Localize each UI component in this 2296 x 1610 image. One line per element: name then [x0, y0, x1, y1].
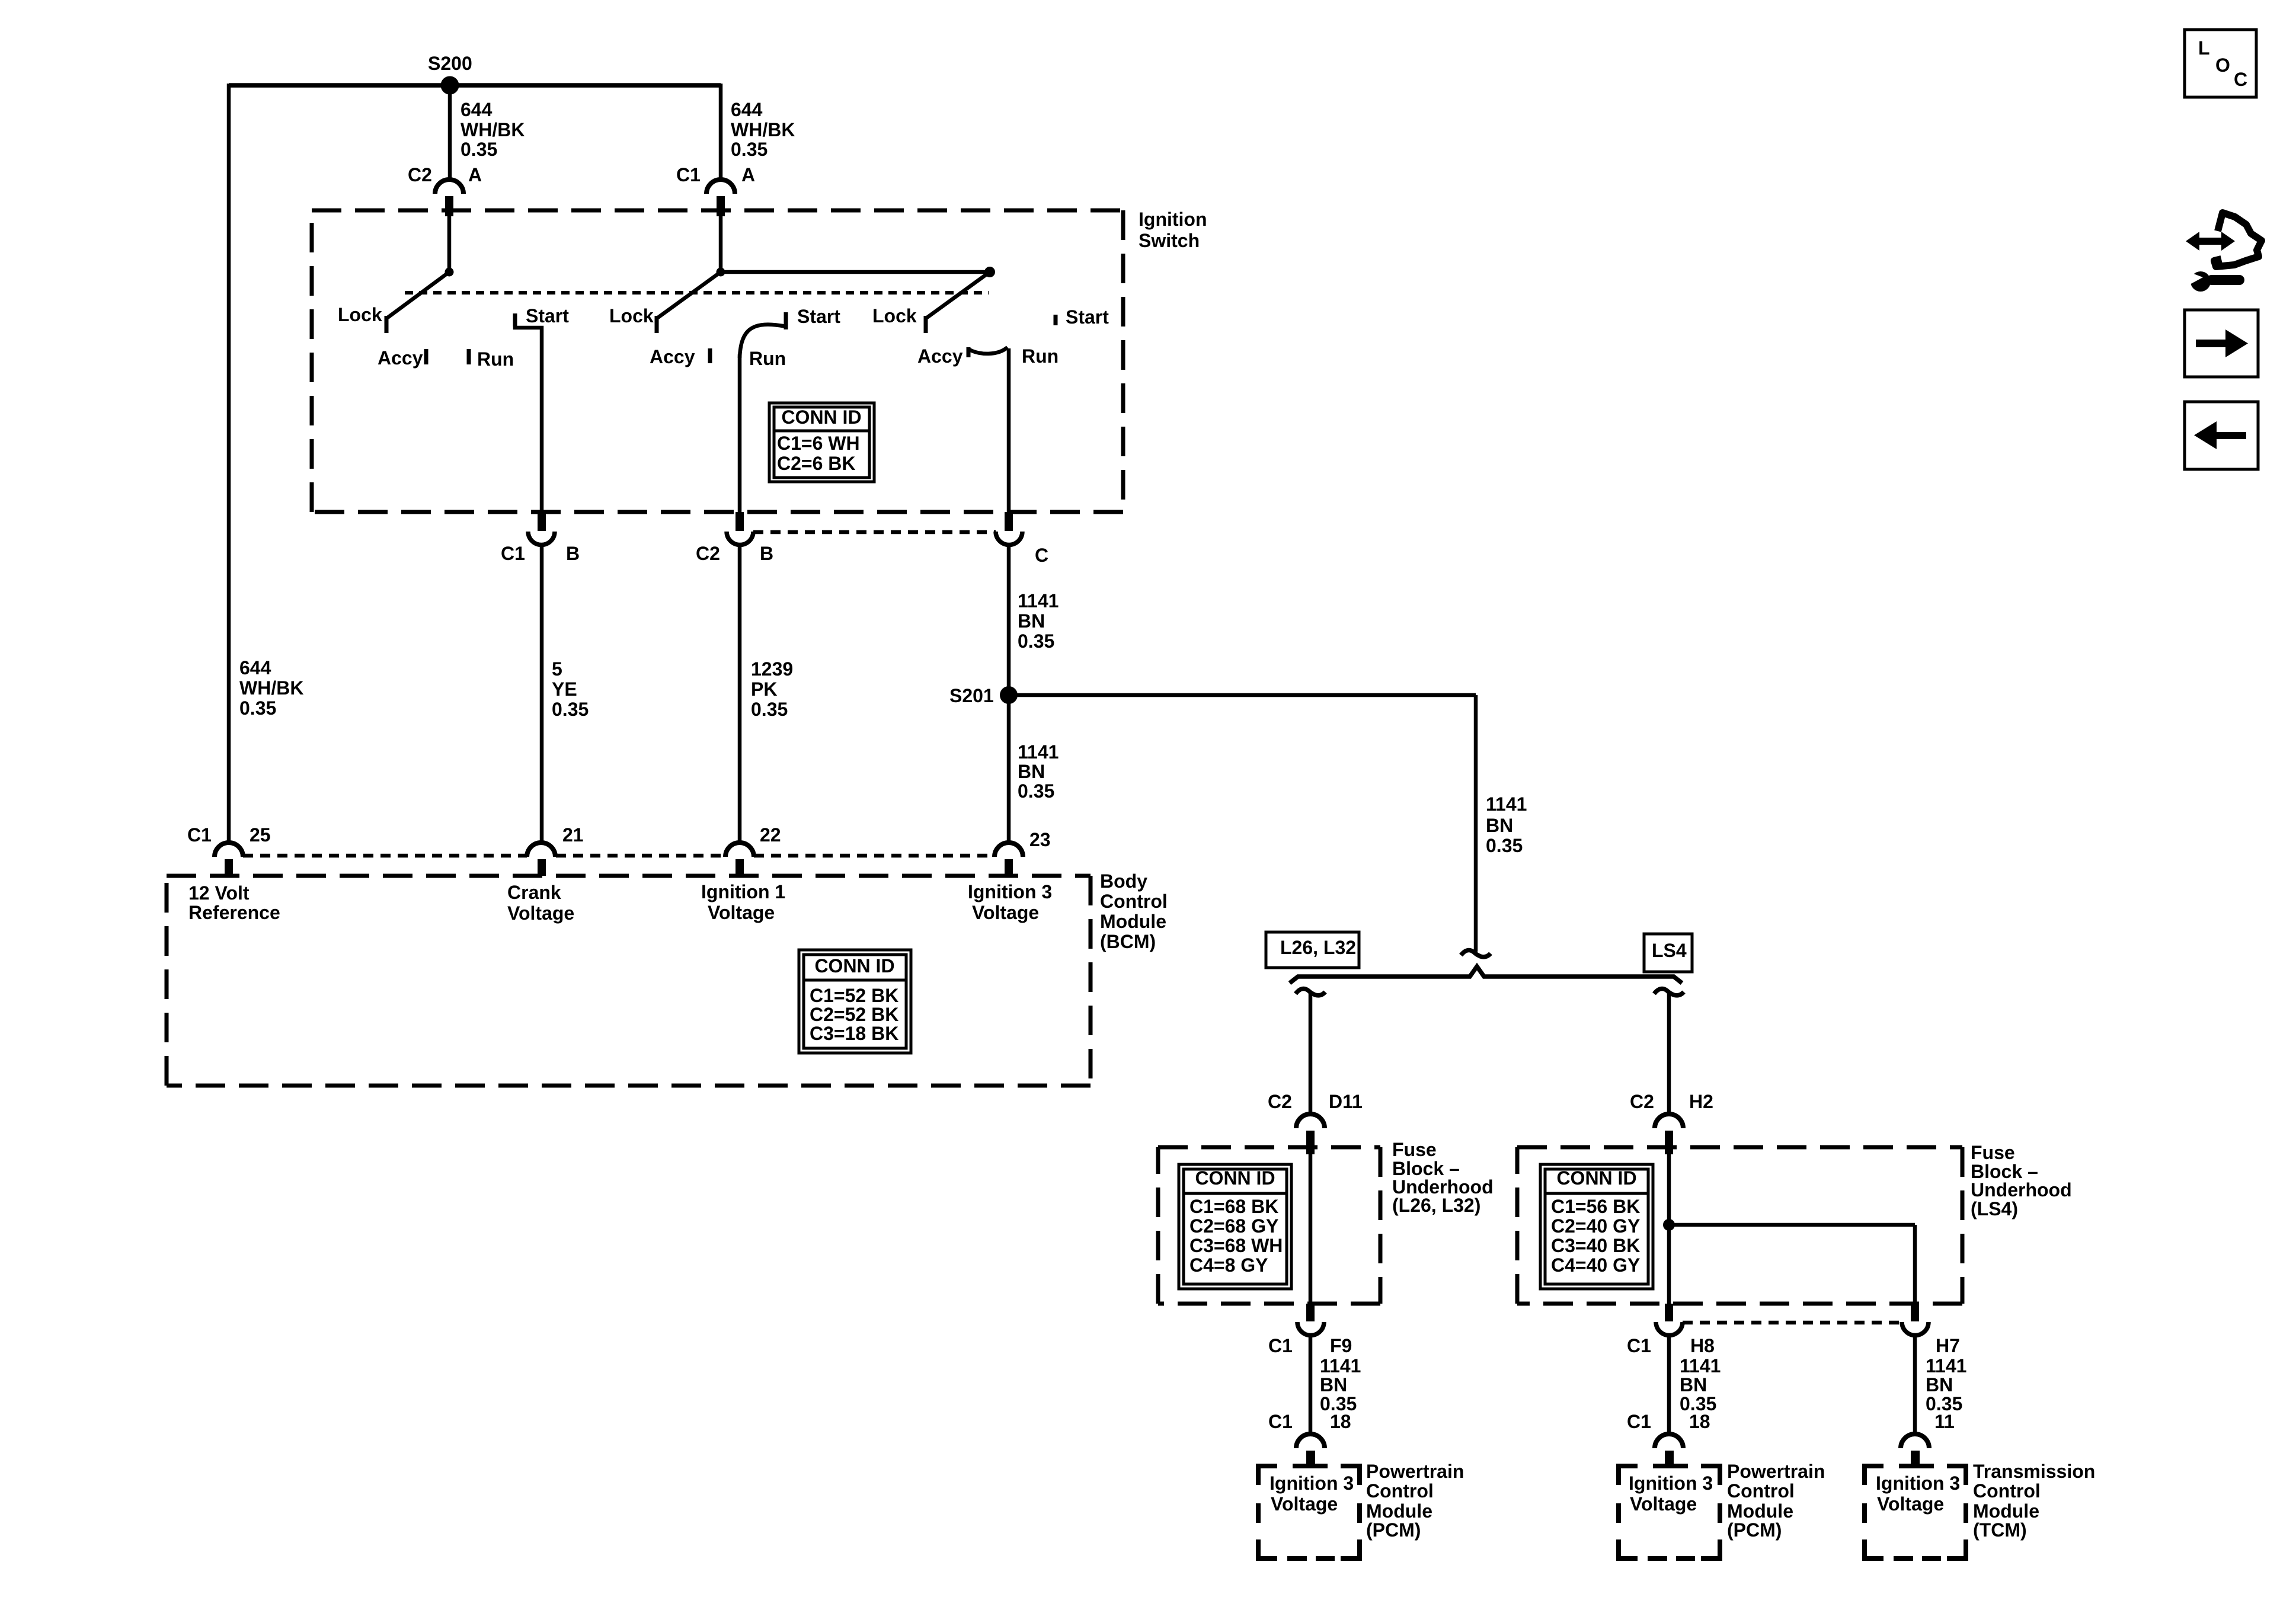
svg-text:Start: Start — [526, 305, 569, 327]
svg-text:Run: Run — [477, 348, 514, 370]
svg-text:Lock: Lock — [609, 305, 654, 327]
svg-text:CONN ID: CONN ID — [1195, 1167, 1275, 1189]
svg-text:C2: C2 — [1630, 1091, 1654, 1112]
svg-text:1141: 1141 — [1926, 1355, 1966, 1377]
svg-text:C: C — [1035, 545, 1048, 566]
svg-text:18: 18 — [1330, 1411, 1351, 1432]
svg-text:Underhood: Underhood — [1971, 1179, 2072, 1201]
svg-text:644: 644 — [461, 99, 493, 120]
svg-text:Control: Control — [1100, 891, 1168, 912]
svg-text:BN: BN — [1486, 815, 1513, 836]
svg-text:(PCM): (PCM) — [1366, 1519, 1421, 1541]
svg-text:BN: BN — [1018, 761, 1045, 782]
svg-text:S201: S201 — [949, 685, 994, 706]
svg-text:Powertrain: Powertrain — [1727, 1461, 1825, 1482]
svg-text:C1=52 BK: C1=52 BK — [810, 985, 898, 1006]
svg-text:18: 18 — [1689, 1411, 1710, 1432]
svg-text:1141: 1141 — [1018, 590, 1059, 612]
svg-text:12 Volt: 12 Volt — [188, 882, 250, 904]
svg-text:Powertrain: Powertrain — [1366, 1461, 1464, 1482]
svg-text:YE: YE — [552, 678, 577, 700]
svg-text:Module: Module — [1366, 1500, 1432, 1522]
svg-text:23: 23 — [1029, 829, 1051, 850]
svg-text:C4=40 GY: C4=40 GY — [1551, 1254, 1640, 1276]
svg-text:CONN ID: CONN ID — [1556, 1167, 1636, 1189]
svg-text:Control: Control — [1366, 1480, 1434, 1502]
svg-text:L26, L32: L26, L32 — [1280, 937, 1356, 958]
svg-text:Fuse: Fuse — [1971, 1142, 2015, 1163]
svg-text:B: B — [566, 543, 580, 564]
svg-text:Voltage: Voltage — [507, 902, 574, 924]
svg-text:B: B — [760, 543, 773, 564]
svg-text:WH/BK: WH/BK — [461, 119, 525, 140]
svg-text:H8: H8 — [1690, 1335, 1715, 1356]
svg-text:C2: C2 — [696, 543, 720, 564]
svg-text:C: C — [2234, 69, 2247, 90]
svg-text:Run: Run — [1022, 345, 1059, 367]
svg-text:Run: Run — [749, 348, 786, 369]
svg-text:Ignition 1: Ignition 1 — [701, 881, 785, 902]
svg-text:1141: 1141 — [1320, 1355, 1361, 1377]
svg-text:(L26, L32): (L26, L32) — [1392, 1195, 1480, 1216]
svg-text:F9: F9 — [1330, 1335, 1352, 1356]
svg-text:Accy: Accy — [378, 347, 423, 369]
svg-text:C3=68 WH: C3=68 WH — [1189, 1235, 1283, 1256]
svg-text:Lock: Lock — [872, 305, 917, 327]
svg-text:A: A — [741, 164, 755, 185]
svg-text:Lock: Lock — [338, 304, 382, 325]
svg-text:Body: Body — [1100, 870, 1147, 892]
svg-text:1141: 1141 — [1486, 793, 1527, 815]
svg-text:1239: 1239 — [751, 658, 793, 680]
svg-text:Reference: Reference — [188, 902, 280, 923]
svg-text:21: 21 — [562, 824, 584, 846]
svg-text:Ignition 3: Ignition 3 — [1876, 1473, 1960, 1494]
svg-text:BN: BN — [1018, 610, 1045, 632]
svg-text:Control: Control — [1973, 1480, 2041, 1502]
svg-text:Start: Start — [1066, 306, 1109, 328]
svg-text:LS4: LS4 — [1652, 940, 1687, 961]
svg-text:644: 644 — [731, 99, 763, 120]
svg-text:Voltage: Voltage — [972, 902, 1039, 923]
svg-text:0.35: 0.35 — [731, 139, 768, 160]
svg-text:Ignition 3: Ignition 3 — [968, 881, 1052, 902]
svg-text:0.35: 0.35 — [552, 699, 589, 720]
svg-text:H2: H2 — [1689, 1091, 1713, 1112]
svg-text:25: 25 — [250, 824, 271, 846]
svg-text:BN: BN — [1926, 1374, 1953, 1395]
svg-text:H7: H7 — [1936, 1335, 1960, 1356]
svg-text:S200: S200 — [428, 53, 472, 74]
svg-text:644: 644 — [239, 657, 271, 678]
svg-text:C1: C1 — [187, 824, 212, 846]
svg-text:Module: Module — [1727, 1500, 1793, 1522]
svg-text:L: L — [2198, 37, 2210, 59]
svg-text:Ignition 3: Ignition 3 — [1269, 1473, 1354, 1494]
svg-text:C2=52 BK: C2=52 BK — [810, 1004, 898, 1025]
svg-text:C1: C1 — [1627, 1411, 1651, 1432]
svg-text:Module: Module — [1973, 1500, 2039, 1522]
svg-text:WH/BK: WH/BK — [239, 677, 303, 699]
svg-text:Start: Start — [797, 306, 840, 327]
svg-text:22: 22 — [760, 824, 781, 846]
svg-text:1141: 1141 — [1018, 741, 1059, 763]
svg-text:Ignition: Ignition — [1139, 209, 1207, 230]
svg-text:BN: BN — [1320, 1374, 1347, 1395]
svg-text:(TCM): (TCM) — [1973, 1519, 2027, 1541]
svg-text:WH/BK: WH/BK — [731, 119, 795, 140]
svg-text:C2: C2 — [408, 164, 432, 185]
svg-text:CONN ID: CONN ID — [781, 406, 861, 428]
svg-text:O: O — [2215, 55, 2230, 76]
svg-text:0.35: 0.35 — [751, 699, 788, 720]
svg-text:PK: PK — [751, 678, 777, 700]
svg-text:(PCM): (PCM) — [1727, 1519, 1782, 1541]
svg-text:C1=56 BK: C1=56 BK — [1551, 1196, 1640, 1217]
svg-text:C1: C1 — [1627, 1335, 1651, 1356]
svg-text:Ignition 3: Ignition 3 — [1629, 1473, 1713, 1494]
svg-text:Crank: Crank — [507, 882, 561, 903]
svg-text:0.35: 0.35 — [239, 697, 276, 719]
svg-text:D11: D11 — [1329, 1091, 1363, 1112]
svg-text:BN: BN — [1680, 1374, 1707, 1395]
svg-text:Module: Module — [1100, 911, 1166, 932]
svg-text:C4=8 GY: C4=8 GY — [1189, 1254, 1268, 1276]
svg-text:Accy: Accy — [650, 346, 695, 367]
svg-text:Accy: Accy — [917, 345, 963, 367]
svg-text:C1: C1 — [1268, 1335, 1293, 1356]
svg-text:C1=68 BK: C1=68 BK — [1189, 1196, 1278, 1217]
svg-text:A: A — [468, 164, 482, 185]
svg-text:Transmission: Transmission — [1973, 1461, 2095, 1482]
svg-text:Voltage: Voltage — [1630, 1493, 1697, 1515]
svg-text:C2=40 GY: C2=40 GY — [1551, 1215, 1640, 1237]
svg-text:(LS4): (LS4) — [1971, 1198, 2018, 1219]
svg-text:Voltage: Voltage — [1877, 1493, 1944, 1515]
svg-text:1141: 1141 — [1680, 1355, 1721, 1377]
svg-text:CONN ID: CONN ID — [814, 955, 894, 977]
svg-text:Voltage: Voltage — [708, 902, 775, 923]
svg-text:C1: C1 — [676, 164, 701, 185]
svg-text:(BCM): (BCM) — [1100, 931, 1156, 952]
svg-text:0.35: 0.35 — [461, 139, 497, 160]
svg-text:C2: C2 — [1268, 1091, 1292, 1112]
svg-text:11: 11 — [1934, 1411, 1955, 1432]
svg-text:C1: C1 — [501, 543, 525, 564]
svg-text:Switch: Switch — [1139, 230, 1200, 251]
svg-text:0.35: 0.35 — [1018, 630, 1054, 652]
svg-text:C1=6 WH: C1=6 WH — [777, 433, 860, 454]
svg-text:C3=18 BK: C3=18 BK — [810, 1023, 898, 1044]
svg-text:C2=6 BK: C2=6 BK — [777, 453, 856, 474]
svg-text:5: 5 — [552, 658, 562, 680]
svg-text:0.35: 0.35 — [1018, 780, 1054, 802]
svg-text:C1: C1 — [1268, 1411, 1293, 1432]
svg-text:0.35: 0.35 — [1486, 835, 1523, 856]
svg-text:Control: Control — [1727, 1480, 1795, 1502]
svg-text:C2=68 GY: C2=68 GY — [1189, 1215, 1278, 1237]
svg-text:Fuse: Fuse — [1392, 1139, 1437, 1160]
svg-text:C3=40 BK: C3=40 BK — [1551, 1235, 1640, 1256]
svg-text:Voltage: Voltage — [1271, 1493, 1338, 1515]
